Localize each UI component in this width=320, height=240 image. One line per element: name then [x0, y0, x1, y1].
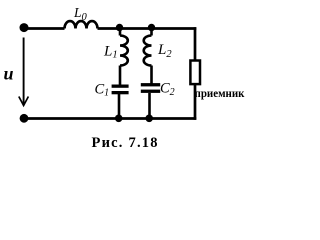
wire: L1 to C1	[119, 66, 122, 86]
node: bottom-left input terminal	[20, 114, 29, 123]
wire: L2 to C2	[150, 66, 153, 84]
svg-text:u: u	[4, 64, 14, 84]
wire: C1 to bottom rail	[118, 94, 121, 119]
capacitor C1	[112, 85, 129, 95]
wire: C2 to bottom rail	[148, 93, 151, 119]
node: junction of L2 branch on top rail	[148, 24, 155, 31]
node: C2 bottom junction	[145, 115, 153, 123]
inductor L1	[120, 36, 128, 66]
wire: load to bottom rail	[194, 84, 197, 120]
capacitor C2	[141, 83, 160, 93]
inductor L0	[65, 21, 98, 28]
wire: voltage arrow u (head)	[19, 97, 29, 106]
resistor load rectangle (приемник)	[190, 61, 200, 85]
inductor L2	[144, 36, 152, 66]
wire: right vertical, top rail to load	[194, 27, 197, 61]
wire: L1 branch top stub	[119, 29, 122, 36]
svg-text:приемник: приемник	[195, 88, 245, 100]
node: C1 bottom junction	[115, 115, 123, 123]
wire: top rail, terminal to L0	[24, 27, 65, 30]
wire: bottom rail	[24, 117, 196, 120]
wire: L2 branch top stub	[150, 29, 153, 36]
node: junction of L1 branch on top rail	[116, 24, 123, 31]
node: top-left input terminal	[20, 23, 29, 32]
wire: voltage arrow u (shaft)	[23, 38, 25, 106]
svg-text:Рис. 7.18: Рис. 7.18	[92, 135, 158, 151]
wire: top rail, L0 to right corner	[98, 27, 197, 30]
